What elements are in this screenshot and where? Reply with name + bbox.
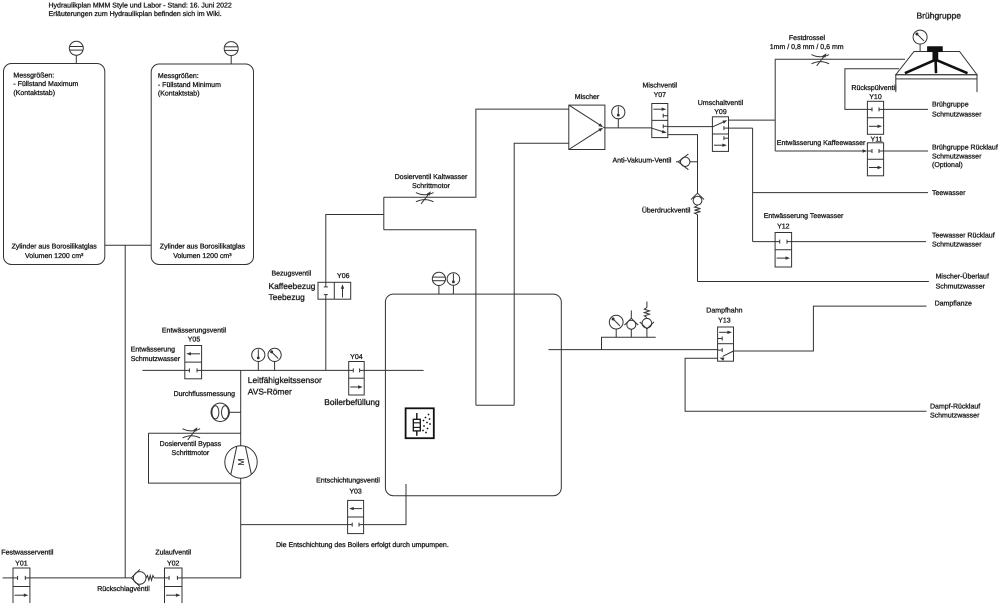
wire Dampf-Rücklauf [685, 358, 926, 411]
svg-text:Mischer-Überlauf: Mischer-Überlauf [936, 272, 989, 280]
svg-text:Y01: Y01 [15, 561, 28, 568]
wire boiler riser to mixer [476, 143, 569, 405]
label Y09 [698, 99, 744, 116]
svg-text:Y03: Y03 [349, 488, 362, 495]
label Teewasser [932, 190, 966, 197]
safety valve on manifold [640, 302, 654, 338]
wire Y09 top out [729, 119, 776, 121]
label Y05 [162, 326, 227, 343]
svg-text:Schmutzwasser: Schmutzwasser [131, 355, 181, 363]
svg-text:Dampflanze: Dampflanze [935, 299, 972, 307]
wire Mischer-Überlauf out [698, 281, 929, 283]
wire Y01 to check valve [30, 577, 131, 579]
label Y02 [155, 549, 191, 568]
wire Y03 into boiler [364, 484, 406, 525]
wire supply inlet [3, 577, 13, 579]
valve Y11 [867, 143, 883, 176]
label Y04 [350, 354, 363, 361]
svg-text:Leitfähigkeitssensor: Leitfähigkeitssensor [248, 375, 322, 385]
label Y10 [851, 84, 897, 101]
svg-text:Dampfhahn: Dampfhahn [706, 306, 742, 314]
wire pump to Y03 [241, 524, 348, 526]
wire Festdrossel line [775, 58, 905, 60]
svg-text:Y10: Y10 [869, 94, 882, 101]
flow meter Durchflussmessung [211, 403, 241, 421]
wire Y10 out [884, 108, 928, 110]
wire Teewasser out [753, 192, 928, 194]
cylinder 2 bottom label [160, 242, 246, 260]
label Y12 [764, 213, 844, 231]
label Y03 [316, 477, 380, 496]
svg-text:(Kontaktstab): (Kontaktstab) [13, 89, 55, 97]
steam manifold bracket [602, 337, 656, 349]
svg-text:Schmutzwasser: Schmutzwasser [932, 110, 982, 118]
svg-text:Volumen 1200 cm³: Volumen 1200 cm³ [173, 252, 232, 260]
wire Entwässerung Kaffeewasser [775, 149, 867, 152]
label Leitfähigkeitssensor [248, 375, 322, 396]
svg-text:Zulaufventil: Zulaufventil [155, 549, 191, 557]
svg-text:Brühgruppe: Brühgruppe [917, 10, 962, 20]
wire mixer to Y07 [605, 127, 652, 129]
wire steam line [548, 349, 717, 351]
label Mischer [575, 93, 600, 101]
throttle Dosierventil Kaltwasser [416, 191, 434, 204]
svg-text:Messgrößen:: Messgrößen: [158, 72, 199, 80]
svg-text:Rückspülventil: Rückspülventil [851, 84, 897, 92]
svg-text:Kaffeebezug: Kaffeebezug [269, 281, 316, 291]
svg-text:Y11: Y11 [871, 136, 883, 143]
svg-text:Zylinder aus Borosilikatglas: Zylinder aus Borosilikatglas [160, 242, 246, 250]
wire into Y12 [753, 241, 776, 243]
temp sensor after mixer [612, 106, 625, 128]
valve Y12 Entwässerung Teewasser [775, 233, 792, 268]
label Überdruckventil [642, 207, 691, 215]
check valve Rückschlagventil [131, 569, 154, 586]
svg-text:Y04: Y04 [350, 354, 363, 361]
label Y11 [871, 136, 883, 143]
valve Y06 Bezugsventil [318, 282, 351, 299]
anti vacuum valve [676, 154, 698, 170]
label Y07 [642, 81, 677, 99]
label Entschichtung note [276, 541, 449, 549]
svg-text:Y05: Y05 [188, 336, 201, 343]
cylinder 1 vessel [4, 64, 105, 265]
svg-text:1mm / 0,8 mm / 0,6 mm: 1mm / 0,8 mm / 0,6 mm [770, 43, 844, 51]
svg-text:Messgrößen:: Messgrößen: [13, 72, 54, 80]
svg-text:Boilerbefüllung: Boilerbefüllung [324, 397, 380, 407]
wire check valve to Y02 [154, 577, 164, 579]
wire cylinder feed down [124, 245, 126, 578]
svg-text:Y09: Y09 [714, 109, 727, 116]
wire drain outlet [142, 369, 184, 371]
wire cylinder connector [105, 244, 151, 246]
title text line 1 [49, 1, 232, 9]
svg-text:Schrittmotor: Schrittmotor [412, 182, 450, 190]
wire Y11 out [884, 150, 928, 152]
svg-text:Entwässerung Kaffeewasser: Entwässerung Kaffeewasser [777, 139, 866, 147]
valve Y04 [349, 362, 365, 396]
label Y13 [706, 306, 742, 324]
cylinder 1 label [13, 72, 78, 97]
svg-text:Schmutzwasser: Schmutzwasser [932, 152, 982, 160]
label Dosierventil Kaltwasser [395, 173, 468, 190]
svg-text:Entwässerungsventil: Entwässerungsventil [162, 326, 227, 334]
svg-text:- Füllstand Maximum: - Füllstand Maximum [13, 80, 78, 88]
svg-text:Bezugsventil: Bezugsventil [271, 269, 311, 277]
wire backflush from Brühgruppe [845, 69, 899, 110]
label Dosierventil Bypass [160, 440, 222, 457]
label Y01 [1, 549, 54, 568]
wire Y06 branch [326, 215, 384, 371]
svg-text:Schmutzwasser: Schmutzwasser [932, 241, 982, 249]
svg-text:Festdrossel: Festdrossel [789, 34, 826, 42]
cylinder 1 bottom label [12, 242, 98, 260]
vacuum breaker on manifold [624, 310, 638, 337]
svg-text:AVS-Römer: AVS-Römer [248, 386, 292, 396]
level sensor on cylinder 1 [69, 41, 83, 63]
svg-text:Überdruckventil: Überdruckventil [642, 207, 691, 215]
wire Kaltwasser line [384, 109, 569, 197]
svg-text:Teebezug: Teebezug [269, 292, 306, 302]
label Brühgruppe Schmutzwasser [932, 101, 982, 119]
wire Teewasser column [752, 128, 754, 242]
valve Y05 Entwässerungsventil [185, 346, 202, 379]
svg-text:(Optional): (Optional) [932, 161, 963, 169]
label Rückschlagventil [97, 585, 150, 593]
wire Dampflanze out [734, 306, 927, 351]
svg-text:Anti-Vakuum-Ventil: Anti-Vakuum-Ventil [612, 157, 671, 165]
throttle Festdrossel [812, 53, 830, 66]
label Entwässerung Kaffeewasser [777, 139, 866, 147]
wire Y07 to Y09 [668, 126, 713, 128]
svg-text:Zylinder aus Borosilikatglas: Zylinder aus Borosilikatglas [12, 242, 98, 250]
label Kaffeebezug Teebezug [269, 281, 316, 302]
label Festdrossel [770, 34, 844, 51]
svg-text:Y07: Y07 [654, 92, 667, 99]
cylinder 2 vessel [151, 64, 253, 265]
label Bezugsventil [271, 269, 349, 280]
svg-text:Brühgruppe Rücklauf: Brühgruppe Rücklauf [932, 144, 998, 152]
svg-text:Die Entschichtung des Boilers: Die Entschichtung des Boilers erfolgt du… [276, 541, 449, 549]
mixer Mischer [569, 105, 605, 149]
svg-text:Festwasserventil: Festwasserventil [1, 549, 54, 557]
svg-text:Y02: Y02 [167, 561, 180, 568]
svg-text:(Kontaktstab): (Kontaktstab) [158, 89, 200, 97]
svg-text:Dosierventil Kaltwasser: Dosierventil Kaltwasser [395, 173, 468, 181]
valve Y01 Festwasserventil [13, 568, 30, 603]
wire boiler fill pipe [384, 230, 476, 405]
svg-text:Rückschlagventil: Rückschlagventil [97, 585, 150, 593]
valve Y02 Zulaufventil [165, 568, 183, 603]
svg-text:Dosierventil Bypass: Dosierventil Bypass [160, 440, 222, 448]
temp sensor on boiler [447, 273, 460, 294]
title text line 2 [49, 10, 222, 18]
valve Y07 Mischventil [652, 104, 668, 138]
wire Festdrossel column [774, 59, 776, 151]
svg-text:Schmutzwasser: Schmutzwasser [930, 411, 980, 419]
svg-text:Y06: Y06 [337, 273, 350, 280]
bypass loop wire [149, 433, 241, 483]
label Teewasser Rücklauf [932, 232, 995, 249]
Brühgruppe distribution arms [905, 60, 968, 73]
label Mischer-Überlauf [936, 272, 989, 290]
cylinder 2 label [158, 72, 221, 97]
label Anti-Vakuum-Ventil [612, 157, 671, 165]
wire junction column [383, 197, 385, 230]
valve Y13 Dampfhahn [718, 327, 734, 361]
Brühgruppe body [896, 52, 977, 93]
level sensor on cylinder 2 [224, 42, 238, 64]
svg-text:Entwässerung: Entwässerung [131, 347, 175, 354]
boiler vessel [385, 294, 561, 496]
label Durchflussmessung [174, 390, 236, 398]
svg-text:Entschichtungsventil: Entschichtungsventil [316, 477, 380, 485]
svg-text:Schrittmotor: Schrittmotor [172, 449, 210, 457]
wire Y07 drain column [668, 135, 698, 194]
svg-text:Erläuterungen zum Hydraulikpla: Erläuterungen zum Hydraulikplan befinden… [49, 10, 222, 18]
svg-text:Durchflussmessung: Durchflussmessung [174, 390, 236, 398]
label Entwässerung Schmutzwasser [131, 347, 181, 364]
overpressure valve Überdruckventil [691, 193, 704, 281]
wire Y02 to pump column [182, 370, 241, 578]
svg-text:Teewasser: Teewasser [932, 190, 966, 197]
temp sensor on fill line [252, 348, 265, 370]
svg-text:Mischventil: Mischventil [642, 81, 677, 89]
svg-text:M: M [236, 458, 246, 465]
svg-text:Dampf-Rücklauf: Dampf-Rücklauf [930, 402, 980, 410]
level sensor on boiler [432, 272, 445, 294]
throttle Dosierventil Bypass [183, 427, 201, 440]
wire Y09 mid out [729, 127, 753, 129]
svg-text:Hydraulikplan MMM Style und La: Hydraulikplan MMM Style und Labor - Stan… [49, 1, 232, 9]
svg-text:Brühgruppe: Brühgruppe [932, 101, 969, 109]
wire Y12 out [792, 241, 926, 243]
label Brühgruppe title [917, 10, 962, 20]
Brühgruppe inlet block [927, 47, 942, 60]
heater box [406, 408, 434, 438]
svg-text:Volumen 1200 cm³: Volumen 1200 cm³ [25, 252, 84, 260]
svg-text:Mischer: Mischer [575, 93, 600, 101]
svg-text:- Füllstand Minimum: - Füllstand Minimum [158, 81, 221, 89]
svg-text:Teewasser Rücklauf: Teewasser Rücklauf [932, 232, 995, 240]
svg-text:Y13: Y13 [718, 317, 731, 324]
label Dampf-Rücklauf [930, 402, 980, 419]
pump M [225, 446, 257, 478]
valve Y03 Entschichtungsventil [348, 500, 364, 533]
pressure gauge on Brühgruppe [913, 30, 927, 51]
valve Y10 Rückspülventil [867, 101, 883, 134]
svg-text:Schmutzwasser: Schmutzwasser [936, 283, 986, 291]
valve Y09 Umschaltventil [712, 117, 728, 152]
svg-text:Umschaltventil: Umschaltventil [698, 99, 744, 107]
label Brühgruppe Rücklauf [932, 144, 998, 169]
pressure gauge on manifold [609, 315, 623, 337]
wire Y04 into boiler [364, 369, 423, 371]
pressure gauge on fill line [268, 348, 281, 370]
label Boilerbefüllung [324, 397, 380, 407]
wire Y05 to Y04 [202, 369, 349, 371]
svg-text:Y12: Y12 [777, 223, 790, 230]
svg-text:Entwässerung Teewasser: Entwässerung Teewasser [764, 213, 844, 220]
label Dampflanze [935, 299, 972, 307]
